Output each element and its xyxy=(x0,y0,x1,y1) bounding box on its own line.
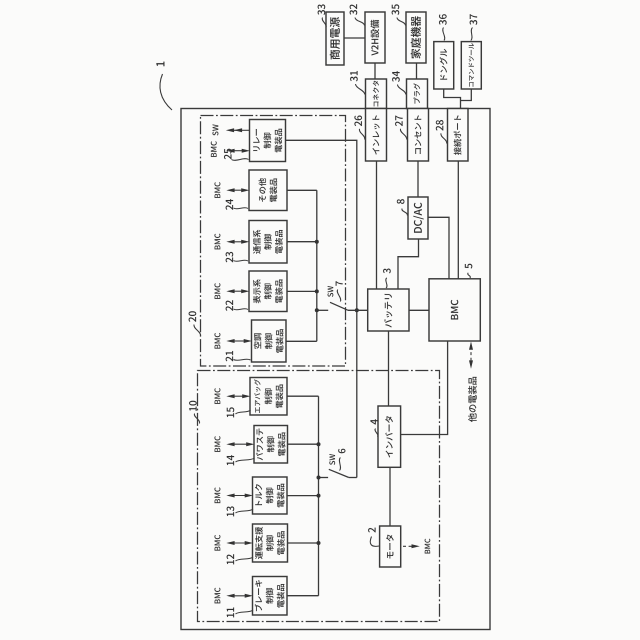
double arrow: BMC bus to ECU 15 xyxy=(226,394,250,398)
wire stub: ECU 22 xyxy=(287,289,319,293)
wire: inverter 4 to motor 2 xyxy=(389,467,391,526)
wire stub: ECU 13 xyxy=(287,494,321,498)
label 12 xyxy=(227,554,253,564)
label 1 with leader arc xyxy=(156,62,172,110)
label 3 xyxy=(383,269,391,288)
wire stub: ECU 24 xyxy=(287,189,317,191)
block 15 エアバッグ制御電装品 xyxy=(250,378,287,416)
label BMC at ECU 21 xyxy=(214,333,220,349)
label SW 6 xyxy=(329,449,345,471)
label 32 xyxy=(350,4,365,25)
block 27 outlet (concent) xyxy=(408,109,429,162)
block 37 command tool xyxy=(461,42,481,89)
double arrow: BMC bus to ECU 21 xyxy=(226,339,252,343)
dashed double arrow: BMC 5 to other components xyxy=(469,342,473,369)
double arrow: BMC bus to ECU 13 xyxy=(226,494,253,498)
block 31 connector xyxy=(366,79,387,109)
block 11 ブレーキ制御電装品 xyxy=(253,577,288,616)
label BMC at ECU 11 xyxy=(214,588,220,604)
double arrow: BMC bus to ECU 22 xyxy=(226,289,249,293)
block 36 dongle xyxy=(434,42,454,89)
block 14 パワステ制御電装品 xyxy=(254,426,288,464)
switch SW6 blade and output to battery node xyxy=(329,469,357,477)
double arrow: BMC bus to ECU 14 xyxy=(226,442,254,446)
wire: battery 3 to BMC 5 xyxy=(409,309,429,311)
block 8 DC/AC converter xyxy=(408,197,428,239)
label BMC at ECU 15 xyxy=(214,388,220,404)
label BMC at ECU 25 xyxy=(211,141,217,157)
label 33 xyxy=(318,4,327,27)
block 23 通信系制御電装品 xyxy=(249,221,287,264)
double arrow: BMC bus to ECU 25 xyxy=(226,149,250,153)
label 21 xyxy=(226,351,251,361)
label BMC at ECU 22 xyxy=(214,283,220,299)
double arrow: BMC bus to ECU 11 xyxy=(226,594,253,598)
wire: home appliance 35 to plug 34 xyxy=(416,63,418,79)
double arrow: BMC bus to ECU 24 xyxy=(226,188,249,192)
label 23 xyxy=(226,252,248,262)
label 11 xyxy=(227,607,253,617)
dash-dot box: drive-system group 10 xyxy=(198,371,440,622)
label: other electrical components xyxy=(468,377,477,422)
wire: DC/AC 8 bottom to battery 3 top xyxy=(398,239,419,289)
block 25 リレー制御電装品 xyxy=(250,120,286,162)
label 27 xyxy=(395,116,407,140)
label 4 xyxy=(370,419,378,437)
block 21 空調制御電装品 xyxy=(252,320,287,362)
label BMC at ECU 14 xyxy=(214,436,220,452)
label 5 xyxy=(465,264,473,278)
block 34 plug xyxy=(407,79,428,109)
wire: outlet 27 to DC/AC 8 xyxy=(417,161,419,197)
label SW at ECU 25 xyxy=(212,124,218,135)
wire: dongle 36 to connection port 28 xyxy=(444,89,461,109)
label 25 xyxy=(224,149,249,161)
label BMC at motor xyxy=(425,539,431,554)
block 13 トルク制御電装品 xyxy=(253,477,288,514)
wire: inlet 26 to battery 3 xyxy=(376,161,378,289)
wire stub: ECU 15 xyxy=(287,395,319,397)
label 14 xyxy=(227,455,255,465)
label 31 xyxy=(350,71,365,95)
wire stub: ECU 12 xyxy=(288,541,321,545)
block 26 inlet xyxy=(366,109,387,162)
wire: DC/AC 8 right to BMC 5 top xyxy=(428,217,449,278)
label 28 xyxy=(436,120,447,143)
wire stub: to switch SW7 xyxy=(315,308,328,312)
wire: power source 33 to V2H 32 xyxy=(344,37,365,39)
wire stub: ECU 21 xyxy=(286,340,317,342)
block 4 inverter xyxy=(378,406,401,467)
label 35 xyxy=(392,4,406,25)
wire stub: to switch SW6 xyxy=(317,476,329,480)
label 20 xyxy=(189,311,201,336)
label 2 xyxy=(368,528,379,547)
wire bus: group 20 ECUs xyxy=(316,190,318,341)
label BMC at ECU 23 xyxy=(214,234,220,250)
dashed arrow: motor to BMC link xyxy=(403,544,420,548)
junction: always-on line with battery feed xyxy=(355,308,359,312)
wire: relay ECU 25 always-on line to battery node xyxy=(286,140,357,477)
block 24 その他電装品 xyxy=(249,170,287,211)
label 34 xyxy=(392,71,406,94)
label BMC at ECU 13 xyxy=(214,487,220,503)
label 36 xyxy=(439,14,447,40)
wire: V2H 32 to connector 31 xyxy=(374,63,376,79)
double arrow: BMC bus to ECU 23 xyxy=(226,240,249,244)
block 35 home appliance xyxy=(406,12,426,63)
label BMC at ECU 12 xyxy=(214,535,220,551)
wire stub: ECU 14 xyxy=(288,442,321,446)
block 22 表示系制御電装品 xyxy=(249,271,287,312)
label SW 7 xyxy=(328,281,343,301)
label 13 xyxy=(227,506,253,516)
block 2 motor xyxy=(380,526,401,567)
label 10 xyxy=(189,401,200,424)
label 37 xyxy=(470,14,478,40)
dash-dot box: body-system group 20 xyxy=(201,116,346,367)
outer box: vehicle system 1 xyxy=(181,109,490,630)
wire: battery 3 to inverter 4 xyxy=(388,331,390,406)
wire bus: group 10 ECUs xyxy=(318,396,320,596)
wire: command tool 37 joining port wire xyxy=(461,89,472,101)
wire stub: ECU 11 xyxy=(287,595,319,597)
block 5 BMC xyxy=(429,279,480,341)
label 22 xyxy=(226,300,248,311)
label BMC at ECU 24 xyxy=(214,182,220,198)
block 12 運転支援制御電装品 xyxy=(253,524,288,562)
switch SW7 blade and output to battery xyxy=(330,302,368,310)
wire: connection port 28 to BMC 5 xyxy=(457,161,459,279)
block 32 V2H equipment xyxy=(365,12,385,63)
wire stub: ECU 23 xyxy=(287,240,319,244)
label 26 xyxy=(354,116,364,140)
label 24 xyxy=(226,199,248,210)
block 33 commercial power source xyxy=(326,12,344,65)
label 8 xyxy=(397,199,408,215)
block 28 connection port xyxy=(448,109,469,162)
wire: inverter 4 right to BMC 5 bottom xyxy=(401,341,448,435)
block 3 battery xyxy=(368,289,409,331)
label 15 xyxy=(227,407,251,417)
double arrow: BMC bus to ECU 12 xyxy=(226,541,253,545)
arrow: SW line to relay ECU 25 xyxy=(226,128,250,132)
